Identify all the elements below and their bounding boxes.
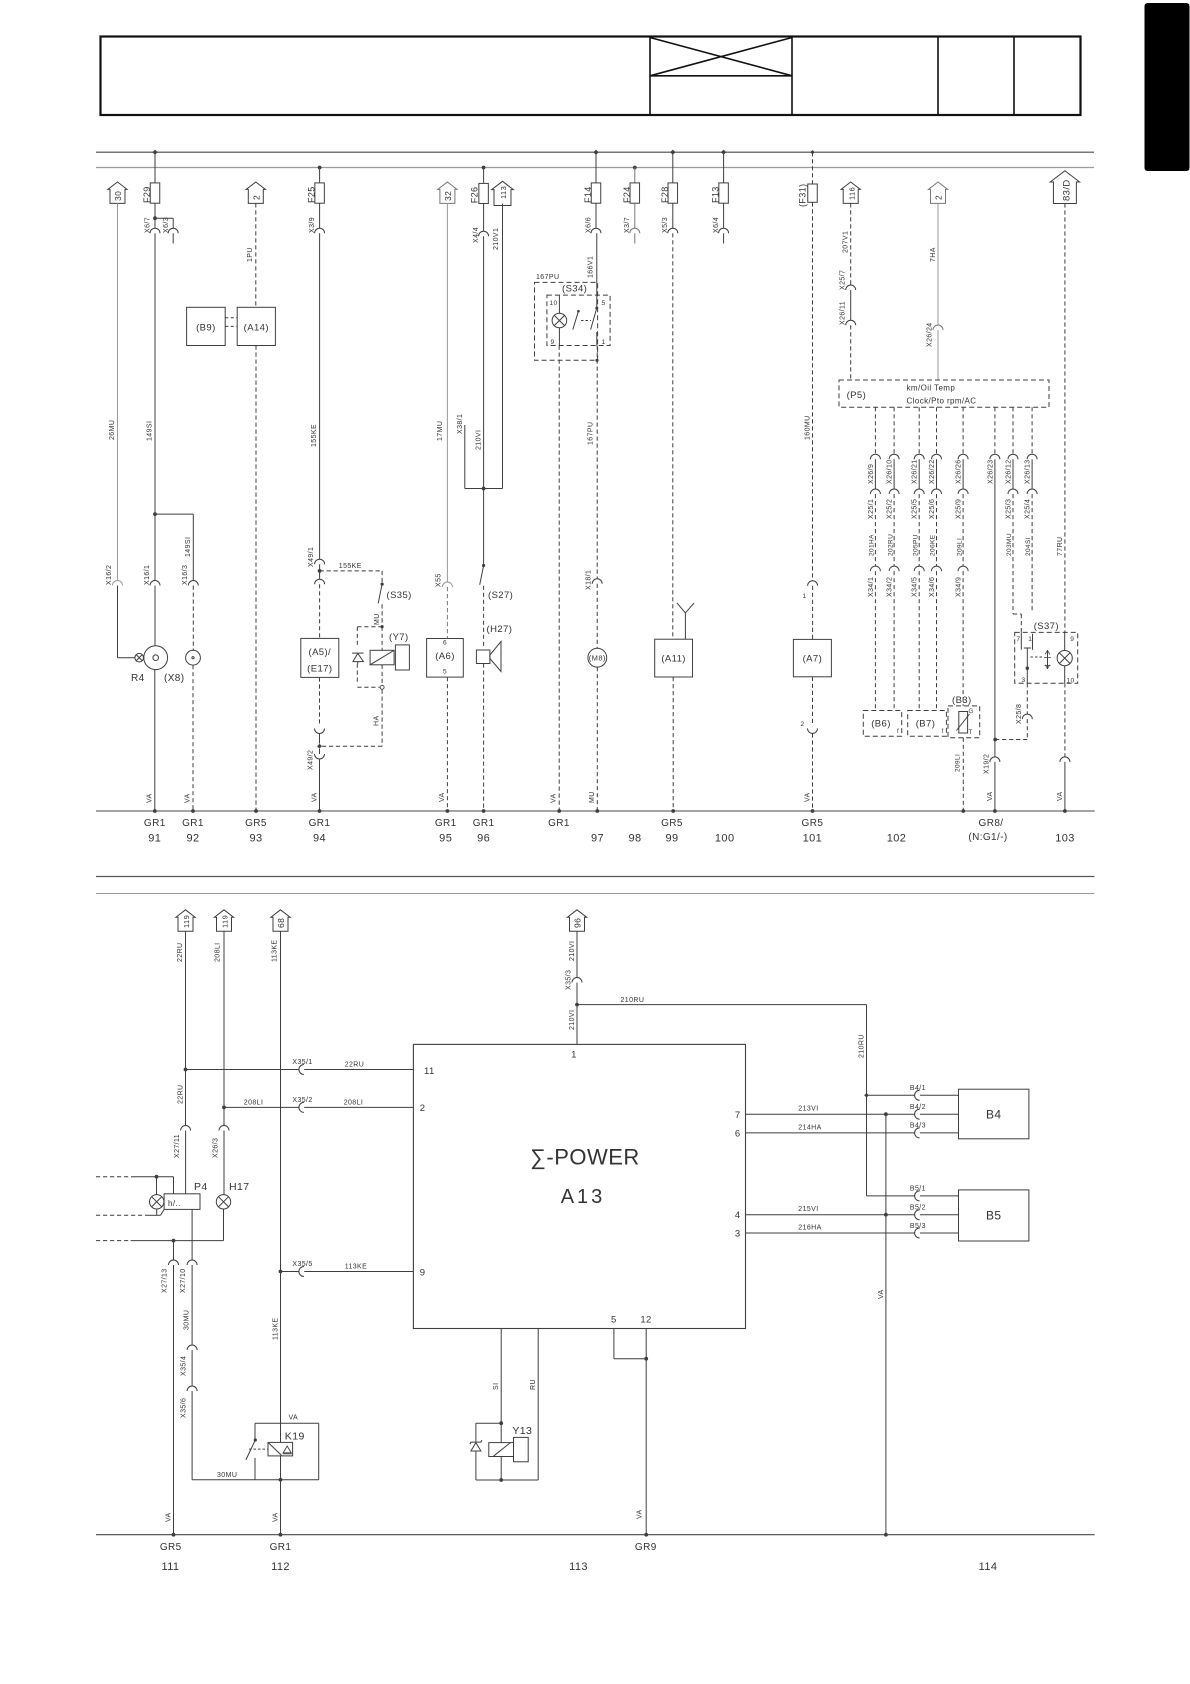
section separator line dark (96, 876, 1095, 878)
svg-text:(P5): (P5) (847, 390, 867, 401)
svg-text:2: 2 (801, 721, 805, 728)
svg-text:B5: B5 (986, 1209, 1001, 1223)
svg-text:202RU: 202RU (887, 534, 894, 556)
node GR5 99 (671, 809, 675, 813)
svg-text:206KE: 206KE (930, 534, 937, 556)
connector X49/2 upper half (315, 729, 325, 734)
svg-text:(F31): (F31) (798, 183, 808, 207)
svg-text:VA: VA (165, 1512, 172, 1522)
svg-text:X26/23: X26/23 (987, 459, 994, 484)
svg-text:X35/6: X35/6 (181, 1398, 188, 1418)
wire 210RU (577, 1004, 867, 1006)
svg-text:X25/7: X25/7 (839, 270, 846, 290)
svg-text:167PU: 167PU (536, 274, 559, 281)
wire B3 to ground 209LI (962, 738, 964, 811)
svg-text:5: 5 (443, 669, 447, 676)
svg-text:X49/2: X49/2 (308, 750, 315, 770)
svg-text:1: 1 (602, 339, 606, 346)
instrument cluster P5 (839, 380, 1049, 407)
svg-text:2: 2 (252, 195, 262, 200)
svg-text:X25/6: X25/6 (929, 499, 936, 519)
connector X25/7 (846, 285, 856, 290)
connector X6/6 (595, 203, 597, 228)
arrow 2 (page ref right) (928, 182, 947, 203)
svg-text:B4/3: B4/3 (910, 1123, 926, 1130)
svg-text:X18/1: X18/1 (586, 570, 593, 590)
wire R4 to ground GR1/91 (154, 670, 156, 811)
svg-text:VA: VA (185, 793, 192, 803)
svg-text:216HA: 216HA (798, 1224, 821, 1231)
lamp lead of P4 (156, 1177, 158, 1195)
svg-text:f: f (897, 729, 899, 735)
svg-text:(M8): (M8) (589, 654, 606, 663)
link B9-A14 dashed (225, 317, 237, 319)
wire branch 149SI to X8 (155, 513, 193, 515)
svg-text:210VI: 210VI (569, 941, 576, 961)
svg-text:(S37): (S37) (1034, 621, 1059, 632)
svg-text:X26/3: X26/3 (213, 1138, 220, 1158)
diode of Y7 (352, 652, 364, 654)
dashed line 2 to P4 (96, 1214, 148, 1216)
svg-text:210V1: 210V1 (493, 228, 500, 250)
wire 210V1 from fuse F26 (483, 236, 485, 488)
wire K19 to ground GR1/112 (280, 1456, 282, 1535)
svg-text:3: 3 (735, 1229, 741, 1240)
wire pin2 208LI (222, 1106, 226, 1110)
svg-text:97: 97 (591, 833, 604, 845)
title block divider 1 (649, 37, 651, 116)
sensor B6 (863, 711, 901, 737)
wire S37 pin3 to X25/8 (1026, 683, 1028, 714)
svg-text:X35/3: X35/3 (566, 970, 573, 990)
wire 166V1 to S34 (596, 233, 598, 295)
svg-text:GR5: GR5 (802, 818, 824, 829)
svg-text:A13: A13 (561, 1186, 606, 1208)
svg-text:(A11): (A11) (661, 654, 686, 665)
svg-text:VA: VA (289, 1415, 299, 1422)
svg-text:X25/4: X25/4 (1025, 499, 1032, 519)
svg-text:68: 68 (276, 918, 286, 928)
fuse F24 (633, 166, 637, 170)
svg-text:GR1: GR1 (270, 1542, 292, 1553)
svg-text:GR1: GR1 (182, 818, 204, 829)
wire A7 to ground GR5/101 (812, 677, 814, 724)
wire X16/3 to X8 (192, 586, 194, 651)
wire 26MU from arrow 30 (117, 203, 119, 580)
lamp of S37 (1064, 632, 1066, 650)
connector stub X6/4 (723, 203, 725, 228)
svg-text:X5/3: X5/3 (662, 217, 669, 233)
svg-text:(S34): (S34) (562, 284, 587, 295)
node VA top (884, 1112, 888, 1116)
svg-text:7: 7 (1016, 636, 1020, 643)
svg-text:207V1: 207V1 (843, 231, 850, 253)
plug X8 (186, 650, 201, 665)
wire RU from A13 (537, 1329, 539, 1481)
svg-text:215VI: 215VI (798, 1206, 818, 1213)
svg-text:T: T (969, 730, 973, 736)
fuse F28 (670, 150, 675, 155)
P5 output X26/26 (962, 407, 964, 454)
wire 207V1 (850, 203, 852, 285)
svg-text:X55: X55 (436, 573, 443, 587)
arrow 30 (page ref) (108, 182, 127, 203)
svg-text:6: 6 (443, 640, 447, 647)
svg-text:VA: VA (439, 792, 446, 802)
svg-text:(N:G1/-): (N:G1/-) (968, 832, 1007, 843)
node X49/2 junction (317, 744, 322, 749)
wire 208LI down (223, 931, 225, 1107)
wire 149SI (154, 233, 156, 514)
wire X26/3 to H17 (223, 1131, 225, 1195)
antenna of A11 (684, 613, 686, 639)
wire branch 155KE to S35 (320, 570, 383, 572)
armature Y7 (395, 645, 409, 670)
suppressor diode of Y13 (475, 1423, 477, 1441)
svg-text:X34/9: X34/9 (956, 577, 963, 597)
svg-text:X19/2: X19/2 (984, 754, 991, 774)
svg-text:1: 1 (571, 1050, 577, 1061)
wire B4/1 (867, 1094, 915, 1096)
arrow 119 (page ref, 22RU) (176, 910, 195, 931)
connector X26/24 (933, 325, 943, 330)
svg-text:X3/9: X3/9 (309, 217, 316, 233)
wire 1PU to A14 (255, 203, 257, 307)
svg-text:160MU: 160MU (805, 415, 812, 440)
svg-text:F24: F24 (622, 186, 632, 203)
ground rail GR (lower diagram) (96, 1534, 1095, 1536)
title block divider 3 (937, 37, 939, 116)
wire Y7 coil to X49/2 node (381, 665, 383, 685)
bus line 1 (top feed) (96, 151, 1094, 153)
svg-text:2: 2 (934, 195, 944, 200)
svg-text:22RU: 22RU (177, 1085, 184, 1105)
P5 output X26/9 (874, 407, 876, 454)
arrow 32 (page ref) (438, 182, 457, 203)
svg-text:93: 93 (249, 833, 262, 845)
svg-text:149SI: 149SI (147, 421, 154, 441)
relay coil Y7 (381, 627, 383, 651)
motor M8 (588, 648, 607, 667)
svg-text:X25/8: X25/8 (1016, 704, 1023, 724)
fuse F14 (593, 150, 598, 155)
svg-text:VA: VA (987, 791, 994, 801)
svg-text:9: 9 (1070, 636, 1074, 643)
title block crossed cell (650, 75, 792, 77)
svg-text:6: 6 (735, 1129, 741, 1140)
S37 bridging contact (1024, 647, 1031, 649)
fuse F13 (721, 150, 726, 155)
wire pin5 (613, 1329, 615, 1359)
sensor B5 (959, 1190, 1029, 1241)
connector X6/7 (154, 203, 156, 218)
svg-text:208LI: 208LI (244, 1100, 264, 1107)
node 103 (1063, 809, 1067, 813)
svg-text:22RU: 22RU (345, 1062, 365, 1069)
svg-text:F25: F25 (307, 186, 317, 203)
svg-text:5: 5 (602, 300, 606, 307)
title block frame (101, 37, 1081, 116)
svg-text:9: 9 (551, 339, 555, 346)
P5 output X26/21 (918, 407, 920, 454)
svg-text:GR8/: GR8/ (979, 818, 1004, 829)
arrow 119 (page ref, 208LI) (214, 910, 233, 931)
connector X49/1 (315, 559, 325, 564)
svg-text:X35/4: X35/4 (181, 1356, 188, 1376)
node GR1 91 (153, 809, 157, 813)
svg-text:F28: F28 (660, 186, 670, 203)
node GR1 92 (191, 809, 195, 813)
svg-text:GR5: GR5 (160, 1542, 182, 1553)
svg-text:32: 32 (443, 191, 453, 201)
wire X26/24 to P5 (937, 330, 939, 380)
wire 113KE down (280, 931, 282, 1271)
svg-text:12: 12 (640, 1315, 651, 1326)
svg-text:X26/12: X26/12 (1005, 459, 1012, 484)
svg-text:96: 96 (477, 833, 490, 845)
module A14 (237, 307, 275, 345)
svg-text:MU: MU (374, 613, 381, 625)
svg-text:VA: VA (1057, 791, 1064, 801)
S34 inner box (547, 295, 610, 345)
svg-text:K19: K19 (285, 1431, 305, 1443)
svg-text:B4/2: B4/2 (910, 1104, 926, 1111)
lamp of P4 (150, 1195, 164, 1209)
svg-text:10: 10 (550, 300, 558, 307)
connector X35/4 (187, 1345, 197, 1350)
wire 208LI to X26/3 (223, 1107, 225, 1125)
svg-text:4: 4 (735, 1210, 741, 1221)
svg-text:B4: B4 (986, 1108, 1001, 1122)
wire 17MU to A6 (446, 203, 448, 582)
node Y7 top (381, 625, 384, 628)
P5 line X26/13 to S37 (1031, 407, 1033, 454)
svg-text:98: 98 (628, 833, 641, 845)
svg-text:(S35): (S35) (387, 590, 412, 601)
node S34 pin1 junction (595, 359, 598, 362)
svg-text:113: 113 (569, 1561, 588, 1573)
wire to ground GR1/94 (319, 759, 321, 811)
connector X55 (442, 582, 452, 587)
svg-text:166V1: 166V1 (588, 256, 595, 278)
connector X35/3 (572, 978, 582, 983)
svg-text:X26/13: X26/13 (1025, 459, 1032, 484)
svg-text:7: 7 (735, 1110, 741, 1121)
svg-text:9: 9 (420, 1268, 426, 1279)
svg-text:X26/11: X26/11 (839, 301, 846, 325)
svg-text:(B6): (B6) (871, 719, 891, 730)
sensor B3 (thermistor) (948, 706, 980, 738)
amplifier A6 (427, 639, 464, 678)
svg-text:X34/1: X34/1 (868, 577, 875, 597)
arrow 116 (page ref) (841, 182, 860, 203)
wire 160MU to A7 (812, 202, 814, 581)
svg-text:22RU: 22RU (177, 943, 184, 963)
svg-text:2: 2 (420, 1103, 426, 1114)
node branch to X16/3 (153, 512, 157, 516)
svg-text:30MU: 30MU (184, 1310, 191, 1330)
wire B5/1 (866, 1095, 868, 1196)
connector X16/1 (154, 514, 156, 580)
svg-text:210VI: 210VI (569, 1010, 576, 1030)
arrow 2 (page ref) (246, 182, 265, 203)
lamp of S34 (558, 295, 560, 313)
wire to A5/E17 (319, 571, 321, 579)
svg-text:X26/9: X26/9 (868, 464, 875, 484)
connector X27/11 (181, 1126, 191, 1131)
node GR1 96 (482, 809, 486, 813)
wire X5/3 to A11 (672, 233, 674, 639)
arrow 113 (page ref) (492, 181, 514, 205)
svg-text:205PU: 205PU (912, 534, 919, 556)
svg-text:X4/4: X4/4 (473, 227, 480, 243)
wire S35 to Y7 (381, 604, 383, 626)
svg-text:113KE: 113KE (272, 940, 279, 963)
svg-text:X6/6: X6/6 (586, 217, 593, 233)
svg-text:GR1: GR1 (548, 818, 570, 829)
svg-text:X16/3: X16/3 (182, 565, 189, 585)
svg-text:5: 5 (611, 1315, 617, 1326)
switch-lamp unit S37 (1015, 632, 1078, 683)
wire M8 to ground 97 (596, 667, 598, 811)
wire 167PU to M8 (596, 346, 598, 579)
svg-text:167PU: 167PU (588, 422, 595, 445)
svg-text:100: 100 (715, 833, 735, 845)
svg-text:GR1: GR1 (144, 818, 166, 829)
svg-text:77RU: 77RU (1057, 537, 1064, 557)
armature Y13 (514, 1437, 529, 1461)
svg-text:92: 92 (186, 833, 199, 845)
svg-text:VA: VA (272, 1512, 279, 1522)
svg-text:F29: F29 (142, 186, 152, 203)
wire pin9 113KE (279, 1270, 283, 1274)
svg-text:SI: SI (493, 1383, 500, 1390)
svg-text:P4: P4 (194, 1181, 208, 1193)
svg-text:1: 1 (803, 593, 807, 600)
svg-text:HA: HA (374, 715, 381, 726)
svg-text:f: f (942, 729, 944, 735)
svg-text:X27/13: X27/13 (162, 1268, 169, 1293)
svg-text:X49/1: X49/1 (308, 547, 315, 567)
svg-text:X26/24: X26/24 (927, 322, 934, 347)
node branch to S35 (318, 569, 322, 573)
svg-text:GR1: GR1 (309, 818, 331, 829)
svg-text:B5/2: B5/2 (910, 1205, 926, 1212)
svg-text:3: 3 (1022, 677, 1026, 684)
svg-text:GR9: GR9 (635, 1542, 657, 1553)
svg-text:F14: F14 (583, 186, 593, 203)
node GR1 95 (446, 809, 450, 813)
svg-text:99: 99 (665, 833, 678, 845)
svg-text:214HA: 214HA (798, 1124, 821, 1131)
svg-text:11: 11 (424, 1066, 435, 1077)
S37 actuator symbol (1031, 656, 1043, 658)
svg-text:X25/2: X25/2 (887, 499, 894, 519)
svg-text:(A7): (A7) (803, 654, 823, 665)
svg-text:94: 94 (313, 833, 326, 845)
svg-text:km/Oil Temp: km/Oil Temp (907, 384, 956, 393)
module A7 (793, 639, 831, 676)
wire X55 to A6 (446, 587, 448, 639)
svg-text:X26/21: X26/21 (912, 459, 919, 484)
svg-text:X6/3: X6/3 (163, 217, 170, 233)
node K19 coil output (279, 1478, 283, 1482)
svg-text:10: 10 (1067, 677, 1075, 684)
node GR5 101 (811, 809, 815, 813)
connector stub X3/7 (634, 203, 636, 228)
svg-text:(H27): (H27) (487, 624, 513, 635)
svg-text:96: 96 (573, 918, 583, 928)
ground rail GR (upper diagram) (96, 810, 1095, 812)
connector X49/2 lower half (319, 749, 321, 754)
connector X19/2 (990, 757, 1000, 762)
wire pin11 22RU (184, 1068, 188, 1072)
svg-text:X34/2: X34/2 (887, 577, 894, 597)
svg-text:X16/1: X16/1 (144, 565, 151, 585)
svg-text:GR1: GR1 (473, 818, 495, 829)
svg-text:101: 101 (803, 833, 823, 845)
title block divider 2 (791, 37, 793, 116)
svg-text:H17: H17 (229, 1181, 249, 1193)
connector X5/3 (672, 203, 674, 228)
module A5/E17 (301, 638, 339, 677)
wire X35/6 to K19 (191, 1391, 193, 1480)
wire 30MU (191, 1265, 193, 1345)
connector X26/11 (846, 320, 856, 325)
svg-text:155KE: 155KE (339, 563, 362, 570)
node Y13 top (499, 1421, 503, 1425)
svg-text:113KE: 113KE (345, 1264, 368, 1271)
wire P4 to X27/10 (191, 1209, 193, 1260)
svg-text:(A5)/: (A5)/ (309, 647, 332, 658)
S37 pin leads (1020, 632, 1022, 649)
svg-text:(S27): (S27) (488, 590, 513, 601)
wire X18/1 to M8 (596, 584, 598, 649)
svg-text:GR5: GR5 (245, 818, 267, 829)
svg-text:X25/9: X25/9 (956, 499, 963, 519)
wire X27/13 to ground GR5/111 (173, 1265, 175, 1535)
svg-text:F13: F13 (711, 186, 721, 203)
svg-text:155KE: 155KE (311, 424, 318, 447)
connector X16/3 (188, 581, 198, 586)
svg-text:113: 113 (499, 186, 508, 199)
svg-text:102: 102 (887, 833, 907, 845)
hour counter box P4 (164, 1194, 200, 1210)
buzzer indicator of R4 (135, 653, 144, 662)
svg-text:1PU: 1PU (247, 247, 254, 262)
svg-text:(E17): (E17) (307, 664, 332, 675)
svg-text:83/D: 83/D (1062, 179, 1073, 201)
svg-text:X38/1: X38/1 (457, 414, 464, 434)
svg-text:210RU: 210RU (621, 997, 645, 1004)
connector X3/9 (319, 203, 321, 228)
wire X8 to ground GR1/92 (192, 665, 194, 811)
fuse F25 (318, 166, 322, 170)
wire X25/7 to X26/11 (850, 290, 852, 320)
svg-text:X6/7: X6/7 (145, 217, 152, 233)
svg-text:X34/6: X34/6 (929, 577, 936, 597)
svg-text:201HA: 201HA (869, 534, 876, 556)
svg-text:(A14): (A14) (244, 323, 269, 334)
wire X16/2 to R4 lamp (117, 586, 119, 658)
wire SI from A13 (500, 1329, 502, 1424)
svg-text:209LI: 209LI (956, 538, 963, 556)
svg-text:111: 111 (162, 1561, 180, 1573)
diode branch frame of Y7 (357, 626, 382, 628)
connector X26/3 (219, 1126, 229, 1131)
svg-text:X25/3: X25/3 (1005, 499, 1012, 519)
svg-text:VA: VA (637, 1509, 644, 1519)
